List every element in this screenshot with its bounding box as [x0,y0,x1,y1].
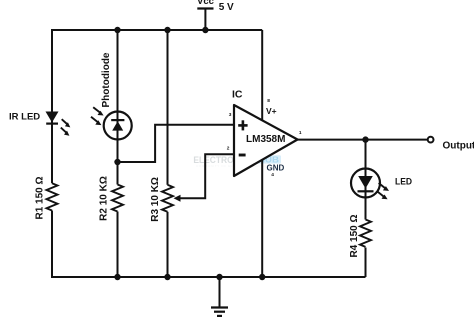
LED D3 [351,169,389,200]
wire non-inverting input (photodiode node to op-amp +) [118,125,235,162]
wire top rail [52,29,262,31]
resistor R1 [46,183,58,210]
photodiode D2 [91,107,132,139]
svg-text:8: 8 [267,98,270,104]
ground [211,277,228,316]
node junction bottom op-amp GND [259,274,265,280]
svg-text:V+: V+ [266,106,277,116]
terminal Output [428,137,434,143]
node junction output/LED [362,136,368,142]
power Vcc 5V [197,0,234,31]
watermark ELECTRONICS HUB [193,155,282,168]
potentiometer R3 [162,185,181,212]
svg-text:R3 10 KΩ: R3 10 KΩ [150,177,161,222]
svg-text:R4 150 Ω: R4 150 Ω [349,214,360,257]
svg-text:2: 2 [227,145,230,151]
svg-text:IR LED: IR LED [9,112,40,123]
wire photodiode / R2 branch [117,29,119,278]
svg-text:R1 150 Ω: R1 150 Ω [35,176,46,219]
wire op-amp ground pin to bottom rail [261,161,263,278]
svg-text:5 V: 5 V [219,2,234,13]
svg-text:R2 10 KΩ: R2 10 KΩ [99,176,110,221]
wire LED branch [365,140,367,277]
node junction top photodiode [114,27,120,33]
node junction top Vcc [202,27,208,33]
node junction photodiode/R2 [114,159,120,165]
wire left branch (Vcc to IR LED to R1 to bottom rail) [51,29,53,278]
node junction bottom ground [216,274,222,280]
svg-text:Output: Output [443,141,474,152]
wire R3 branch [167,29,169,278]
svg-text:4: 4 [271,172,274,178]
svg-text:GND: GND [267,163,285,172]
svg-text:LED: LED [395,177,412,188]
svg-text:Photodiode: Photodiode [101,52,112,107]
resistor R2 [112,185,124,212]
svg-text:1: 1 [299,130,302,136]
svg-text:Vcc: Vcc [197,0,214,7]
wire output [298,139,428,141]
wire bottom rail [52,276,366,278]
svg-text:LM358M: LM358M [246,134,285,145]
wire V+ supply (top rail corner down to op-amp) [261,30,263,121]
node junction bottom R3 [164,274,170,280]
IR LED D1 [46,112,71,136]
node junction bottom R2 [114,274,120,280]
svg-text:3: 3 [229,112,232,118]
svg-text:IC: IC [232,89,243,101]
op-amp U1 LM358M [234,105,298,176]
wire inverting input (R3 wiper to op-amp −) [179,154,235,198]
resistor R4 [360,220,372,248]
node junction top R3 [164,27,170,33]
